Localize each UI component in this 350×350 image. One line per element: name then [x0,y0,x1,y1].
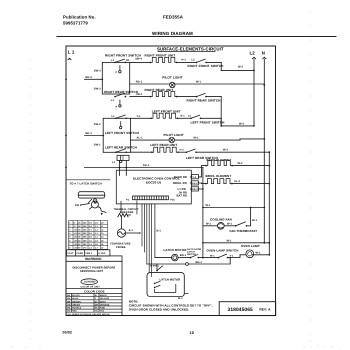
svg-text:05/02: 05/02 [63,331,73,335]
motor latch [155,254,178,261]
svg-text:SURFACE-ELEMENTS-CIRCUIT: SURFACE-ELEMENTS-CIRCUIT [157,46,224,51]
heating element bake [205,161,233,167]
svg-text:WHITE: WHITE [100,294,108,297]
svg-text:W-1: W-1 [178,297,183,300]
svg-text:PR: PR [67,307,70,310]
junction L1/BK-1 [65,135,67,137]
svg-text:PINK: PINK [100,307,106,310]
svg-text:VOLT: VOLT [67,252,74,255]
svg-text:B-1: B-1 [157,229,162,232]
svg-text:Publication No.: Publication No. [63,15,96,20]
wire pilot lower to N bus [175,137,265,141]
svg-text:SW-3: SW-3 [94,88,101,91]
wire breaker to probe [121,217,123,229]
switch blade left rear 2nd pole [186,149,197,153]
svg-text:BU: BU [67,297,71,300]
svg-text:L1: L1 [111,59,115,62]
svg-text:SERVICING UNIT: SERVICING UNIT [80,270,103,273]
switch blade left front [115,115,127,119]
latch switch assembly drawing [78,192,106,216]
wire left switch to left front unit [131,115,152,119]
wire broil pin to broil element [199,182,206,185]
svg-text:W-1: W-1 [227,223,232,226]
pivot contact right front [116,66,122,74]
svg-text:GREEN: GREEN [72,303,80,306]
svg-text:L 1: L 1 [68,50,75,55]
wire oven lamp to feeder [252,251,270,255]
svg-text:BROWN: BROWN [72,300,81,303]
svg-text:RD-1: RD-1 [136,81,143,84]
wire 2nd pole to L2 bus W-2 [206,62,254,70]
svg-text:FAN THERMOSTAT: FAN THERMOSTAT [230,229,258,233]
svg-text:W-1: W-1 [206,223,211,226]
svg-text:LATCH MOTOR: LATCH MOTOR [160,278,181,281]
svg-text:318045065: 318045065 [228,307,254,313]
wire fan to thermostat [224,223,236,226]
wire W-1 lower run [202,239,270,243]
svg-text:SW-4: SW-4 [135,57,142,60]
junction feeder / left rear wire [268,151,270,153]
svg-text:W-1: W-1 [227,239,232,242]
label SW 4 pointer [75,204,90,208]
svg-text:BK-2: BK-2 [86,76,93,79]
svg-text:BROIL RD: BROIL RD [173,182,187,185]
svg-text:LATCH MOTOR: LATCH MOTOR [164,248,188,252]
svg-text:W-3: W-3 [239,122,244,125]
heating element broil [205,179,233,185]
wire switch box to pilot light RD-1 [130,81,169,85]
heating element left front unit [150,113,178,119]
connector strip P1 [126,196,175,201]
diagram frame right border [275,46,277,316]
diagram frame left border / L1 bus [65,46,67,316]
svg-text:TAB 1: TAB 1 [85,252,93,255]
svg-text:RIGHT REAR SWITCH: RIGHT REAR SWITCH [104,90,139,94]
svg-text:10: 10 [190,331,194,335]
wire unit to left rear 2nd pole [178,148,186,152]
connector bake Y-2 [190,175,198,179]
svg-text:LEFT FRONT SWITCH: LEFT FRONT SWITCH [191,121,226,125]
svg-text:W-1: W-1 [252,219,257,222]
svg-text:W-2: W-2 [238,162,243,165]
svg-text:B-1: B-1 [181,114,186,117]
svg-text:SW-1: SW-1 [94,144,101,147]
svg-text:LEFT REAR SWITCH: LEFT REAR SWITCH [105,146,138,150]
wire right rear 2nd pole to L2 W-3 [206,97,254,126]
svg-text:OR: OR [95,303,99,306]
svg-text:LEFT REAR UNIT: LEFT REAR UNIT [150,143,177,147]
switch blade left front 2nd pole [190,115,201,119]
pivot contact right rear [116,100,122,108]
color code table [66,294,122,313]
svg-text:GRAY: GRAY [100,300,107,303]
junction N / lower pilot wire [263,138,265,140]
svg-text:LEFT FRONT SWITCH: LEFT FRONT SWITCH [105,131,140,135]
terminal L2 [252,57,255,59]
diagram frame bottom border [66,315,276,317]
wire latch switch feed [66,179,110,181]
junction feeder / bake [268,165,270,167]
svg-text:L2: L2 [192,59,196,62]
wire latch to lamp switch [198,257,218,259]
L2 feeder wire right side [268,152,270,255]
svg-text:CASE: CASE [76,252,83,255]
switch blade right rear 2nd pole [196,93,207,97]
svg-text:A VAC: A VAC [98,252,106,255]
svg-text:PILOT LIGHT: PILOT LIGHT [162,76,182,80]
svg-text:OVEN DOOR CLOSED AND UNLOCKED.: OVEN DOOR CLOSED AND UNLOCKED. [129,307,190,311]
svg-text:BROIL ELEMENT: BROIL ELEMENT [206,174,232,178]
svg-text:ORANGE: ORANGE [100,303,110,306]
part number box [219,302,276,316]
svg-text:BK-1: BK-1 [86,132,93,135]
svg-text:W-1: W-1 [256,251,261,254]
switch box SW right (right front/rear switch) [102,62,129,94]
svg-text:SW-4: SW-4 [94,70,101,73]
svg-text:TO # 7 LATCH SWITCH: TO # 7 LATCH SWITCH [70,182,102,186]
wire L1 oven feed DK-1 [85,164,203,168]
junction N / pilot wire [263,84,265,86]
warning text [73,266,116,273]
note text [129,299,213,311]
svg-text:DK-1: DK-1 [143,164,150,167]
svg-text:GY: GY [95,300,99,303]
svg-text:PROBE: PROBE [116,246,126,249]
svg-text:ALL WIRES 18 GAUGE UNLESS NOTE: ALL WIRES 18 GAUGE UNLESS NOTED [67,313,110,316]
junction L1/BK-2 [65,78,67,80]
svg-text:DISCONNECT POWER BEFORE: DISCONNECT POWER BEFORE [73,266,116,269]
svg-text:RIGHT FRONT UNIT: RIGHT FRONT UNIT [145,53,176,57]
publication number text [63,15,96,26]
temperature probe [117,229,125,237]
oven door plug connector [117,155,129,160]
wire pilot light to N bus [175,81,265,85]
svg-text:BAKE RD: BAKE RD [174,176,187,179]
svg-text:OVEN LAMP: OVEN LAMP [241,244,260,248]
svg-text:L1: L1 [112,161,116,164]
diagram frame top border [66,45,276,47]
switch blade left rear [115,149,127,153]
svg-text:L1: L1 [111,99,115,102]
junction L2 / W-3 [253,125,255,127]
svg-text:AL-1: AL-1 [137,137,144,140]
ratings header row table [67,250,110,256]
svg-text:Y-1: Y-1 [137,115,142,118]
wire unit to 2nd pole [177,59,197,63]
svg-text:W-1: W-1 [196,81,201,84]
junction L2 / W-2 [253,70,255,72]
pivot contact left front [120,122,122,129]
svg-text:BN-1: BN-1 [196,261,203,264]
wire W-4 L1 to left switch box [85,132,105,136]
title underline rule [57,36,336,38]
svg-text:WARNING: WARNING [85,257,102,261]
svg-text:BK: BK [67,294,71,297]
warning box [66,256,122,316]
svg-text:PURPLE: PURPLE [72,307,82,310]
switch fan thermostat blade [235,219,258,227]
svg-text:W-1: W-1 [206,204,211,207]
svg-text:YELLOW: YELLOW [100,297,110,300]
svg-text:TN: TN [95,310,98,313]
svg-text:RD: RD [67,310,71,313]
svg-text:BAKE ELEMENT: BAKE ELEMENT [207,158,232,162]
svg-text:N: N [262,51,265,56]
badge ALMOND [81,279,97,285]
svg-text:Y-2: Y-2 [192,176,196,179]
svg-text:L2: L2 [250,51,256,56]
color code divider [67,288,123,290]
wire L1 branch down [202,168,204,258]
wire latch motor return BN-1 lower [147,257,231,266]
switch blade right front 2nd pole [196,59,207,63]
wire W-1 neutral run [202,204,265,208]
svg-text:B-1: B-1 [129,229,134,232]
svg-text:AL-2: AL-2 [192,182,198,185]
wire W-4 L1 to right switch box [85,76,104,80]
svg-text:BR: BR [67,300,71,303]
svg-text:W-2: W-2 [238,66,243,69]
svg-text:W-1: W-1 [210,254,215,257]
svg-text:OVEN LAMP SWITCH: OVEN LAMP SWITCH [207,249,239,253]
switch blade right rear [114,93,126,97]
svg-text:L1: L1 [112,115,116,118]
svg-text:W-3: W-3 [223,149,228,152]
op-amp n/a : EOC controller box U5 [116,170,191,204]
label THERMAL CIRCUIT BREAKER [114,208,140,214]
svg-text:P: P [116,71,118,74]
wire bake pin to bake element [199,166,207,177]
scan artifact dot row bottom [11,345,333,348]
terminal N [263,57,266,59]
oven calibration table [69,221,108,250]
switch oven lamp blade [210,254,234,258]
pilot light lower [169,137,174,142]
switch latch motor cam blade [150,264,163,271]
scan artifact dot column right [309,11,311,342]
svg-text:W-1: W-1 [194,137,199,140]
wire probe to harness [126,232,141,234]
wire left box to pilot light AL-1 [131,137,169,141]
svg-text:H1: H1 [126,59,130,62]
switch auto door latch blade [190,255,199,259]
switch box SW left (left front/rear switch) [103,118,130,152]
wire broil element to feeder W-2 [232,180,269,184]
L2 bus wire [253,60,255,126]
svg-text:PILOT LIGHT: PILOT LIGHT [164,133,184,137]
svg-text:SW-2: SW-2 [94,123,101,126]
label AUTO DOOR LATCH SWITCH [187,248,202,256]
svg-text:FED355A: FED355A [163,15,184,20]
svg-text:RIGHT FRONT SWITCH: RIGHT FRONT SWITCH [188,64,225,68]
wire switch to right rear unit [130,93,151,97]
svg-text:PK: PK [95,307,98,310]
motor cooling fan [217,222,224,229]
svg-text:BAT RD: BAT RD [177,195,188,198]
svg-text:RIGHT REAR SWITCH: RIGHT REAR SWITCH [187,99,222,103]
color code entries [67,294,110,316]
wire thermostat up to W-1 run [250,207,252,226]
junction feeder / broil [268,183,270,185]
breaker zigzag [118,201,131,217]
heating element right front unit [150,57,178,63]
latch motor switch assembly box [147,273,188,301]
junction EOC drop 1 [119,167,121,176]
svg-text:5995371779: 5995371779 [63,21,88,26]
wire to cooling fan [203,223,218,226]
wire left rear switch to unit [131,151,152,153]
svg-text:P: P [116,105,118,108]
svg-text:REV: A: REV: A [259,307,271,311]
svg-text:AL-2: AL-2 [234,180,241,183]
svg-text:P16: P16 [170,198,175,201]
svg-text:EOC30 U5: EOC30 U5 [146,181,162,185]
wire bake element to feeder W-2 [232,162,269,166]
svg-text:ALMOND: ALMOND [84,281,96,284]
svg-text:COLOR CODE: COLOR CODE [84,290,105,294]
wire EOC to latch motor [154,204,156,258]
switch blade right front [114,59,126,63]
heating element right rear unit [150,92,178,98]
svg-text:H-2: H-2 [180,148,185,151]
pilot light upper [170,82,175,87]
terminal L1 [68,58,71,60]
svg-text:COLOR OF UNIT: COLOR OF UNIT [81,285,101,288]
wire unit to right rear 2nd pole [177,96,197,98]
scan artifact dot column left [30,59,32,331]
svg-text:BLUE: BLUE [72,297,79,300]
wire left rear 2nd pole to feeder [196,149,269,153]
svg-text:GN: GN [67,303,71,306]
svg-text:OR-1: OR-1 [136,93,143,96]
wire latch motor BN-1 [178,254,190,258]
svg-text:RED: RED [72,310,77,313]
lamp oven [228,250,254,258]
svg-text:H-1: H-1 [182,59,187,62]
label TEMPERATURE PROBE [110,243,131,249]
svg-text:BLACK: BLACK [72,294,80,297]
wire switch to right front unit [130,57,151,62]
svg-text:LEFT FRONT UNIT: LEFT FRONT UNIT [152,109,181,113]
svg-text:BN-1: BN-1 [180,254,187,257]
connector broil AL-2 [190,181,198,185]
heating element left rear unit [151,147,179,153]
svg-text:WIRING DIAGRAM: WIRING DIAGRAM [152,31,193,36]
warning divider [67,260,123,262]
wire harness EOC P1 bundle [137,201,152,277]
junction L1/DK-1 [65,167,67,169]
svg-text:DK-2: DK-2 [192,188,199,191]
N bus wire [263,60,265,243]
wire left front 2nd pole joins W-3 [201,118,223,126]
svg-text:COOLING FAN: COOLING FAN [210,218,232,222]
wire unit to left front 2nd pole [177,114,191,118]
connector L1 DK-2 [190,187,203,191]
svg-text:W: W [95,294,97,297]
svg-text:TAN: TAN [100,310,105,313]
pivot contact left rear [112,156,122,164]
junction EOC drop 2 [125,167,127,176]
